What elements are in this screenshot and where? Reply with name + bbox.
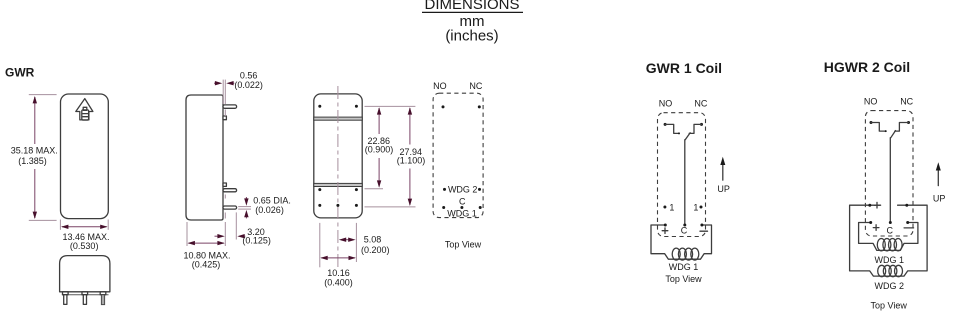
contact NC terminal (HGWR) bbox=[895, 121, 910, 131]
coil WDG1 (HGWR) bbox=[877, 239, 902, 251]
dashed relay outline (GWR schematic) bbox=[658, 113, 706, 237]
extension lines 10.80 bbox=[187, 222, 225, 246]
extension lines 0.65 DIA bbox=[238, 207, 251, 210]
centerline vertical bbox=[337, 86, 339, 268]
end view pin 1 bbox=[63, 292, 69, 305]
dimension arrows 0.56 bbox=[214, 81, 234, 85]
extension line pin right bbox=[355, 223, 357, 262]
common wire (HGWR) bbox=[889, 138, 891, 223]
side view stub upper bbox=[223, 116, 226, 120]
svg-text:DIMENSIONS: DIMENSIONS bbox=[424, 0, 519, 13]
svg-text:WDG 1: WDG 1 bbox=[447, 208, 477, 218]
side view stub lower bbox=[223, 183, 226, 186]
dimension arrows 0.65 bbox=[244, 197, 248, 218]
svg-text:0.56: 0.56 bbox=[240, 70, 258, 80]
svg-text:(0.026): (0.026) bbox=[255, 205, 284, 215]
svg-text:NO: NO bbox=[864, 97, 878, 107]
winding terminal dots (GWR) bbox=[664, 224, 704, 227]
winding box WDG1 inner (HGWR) bbox=[859, 223, 918, 251]
svg-text:(0.900): (0.900) bbox=[365, 145, 394, 155]
end view pin 3 bbox=[100, 292, 106, 305]
side view bottom pin bbox=[223, 206, 237, 209]
extension lines 0.56 twin bbox=[223, 80, 225, 104]
svg-text:UP: UP bbox=[717, 184, 730, 194]
extension lines 13.46 bbox=[59, 220, 61, 230]
dimension text 13.46 MAX (0.530) bbox=[62, 232, 109, 251]
dimension text 5.08 (0.200) bbox=[361, 235, 390, 255]
dimension line 22.86 bbox=[377, 107, 381, 188]
extension line bottom row bbox=[365, 206, 416, 208]
mounting bar upper bbox=[314, 117, 362, 120]
relay bottom view body bbox=[314, 94, 362, 218]
contact NO terminal bbox=[664, 123, 680, 134]
dimension text 0.56 (0.022) bbox=[234, 70, 263, 90]
extension line pin left bbox=[319, 223, 321, 267]
dimension line 35.18 vertical bbox=[33, 96, 37, 219]
winding box WDG1 (GWR) bbox=[651, 225, 712, 259]
end view pin 2 bbox=[82, 292, 88, 305]
dimension text 10.16 (0.400) bbox=[324, 268, 353, 288]
svg-text:5.08: 5.08 bbox=[364, 235, 382, 245]
pin dots top row bbox=[318, 105, 358, 108]
svg-text:1: 1 bbox=[693, 202, 698, 212]
svg-text:NC: NC bbox=[469, 81, 482, 91]
mounting bar lower bbox=[314, 183, 362, 186]
svg-text:(0.400): (0.400) bbox=[324, 277, 353, 287]
end view base strip bbox=[62, 294, 109, 296]
svg-text:C: C bbox=[886, 226, 893, 236]
dimension text 22.86 (0.900) bbox=[365, 136, 394, 154]
plus polarity mark inner (HGWR) bbox=[873, 225, 879, 231]
svg-text:UP: UP bbox=[933, 194, 946, 204]
svg-text:NC: NC bbox=[694, 99, 707, 109]
svg-text:NC: NC bbox=[900, 97, 913, 107]
top view bottom row dots bbox=[442, 206, 482, 209]
svg-text:Top View: Top View bbox=[445, 240, 482, 250]
extension line bottom (35.18) bbox=[29, 219, 57, 221]
svg-text:WDG 1: WDG 1 bbox=[669, 262, 699, 272]
svg-text:1: 1 bbox=[669, 202, 674, 212]
dimension text 10.80 MAX (0.425) bbox=[183, 250, 230, 269]
dimension arrows 3.20 bbox=[215, 234, 246, 238]
svg-text:(0.125): (0.125) bbox=[242, 235, 271, 245]
orientation arrow icon bbox=[76, 99, 93, 121]
dashed outline top view bbox=[433, 93, 483, 217]
pin dots middle row bbox=[318, 188, 358, 191]
coil WDG1 (GWR) bbox=[672, 248, 699, 260]
pin dots bottom row bbox=[318, 204, 358, 207]
contact NC terminal bbox=[689, 123, 703, 133]
svg-text:10.16: 10.16 bbox=[327, 268, 350, 278]
svg-text:(0.022): (0.022) bbox=[234, 80, 263, 90]
armature (HGWR) bbox=[891, 131, 896, 138]
svg-text:(1.100): (1.100) bbox=[397, 156, 426, 166]
dimension line 27.94 bbox=[408, 107, 412, 206]
svg-text:WDG 2: WDG 2 bbox=[875, 281, 905, 291]
pin 1 right marker bbox=[693, 202, 702, 212]
dimension text 27.94 (1.100) bbox=[397, 147, 426, 166]
top view pin dots NO NC bbox=[442, 105, 481, 108]
svg-text:(0.200): (0.200) bbox=[361, 245, 390, 255]
extension line middle row bbox=[365, 188, 384, 190]
extension line top row bbox=[365, 105, 416, 107]
side view middle pin bbox=[223, 189, 237, 192]
armature bbox=[685, 133, 690, 140]
dashed red extension segments below 0.56 bbox=[224, 110, 226, 219]
dimension text 3.20 (0.125) bbox=[242, 227, 271, 245]
svg-text:35.18 MAX.: 35.18 MAX. bbox=[11, 145, 58, 155]
svg-text:NO: NO bbox=[659, 99, 673, 109]
svg-text:(inches): (inches) bbox=[445, 28, 498, 45]
dashed relay outline (HGWR schematic) bbox=[865, 111, 913, 236]
outer winding terminal dots (HGWR) bbox=[868, 204, 908, 207]
svg-text:HGWR 2 Coil: HGWR 2 Coil bbox=[824, 59, 910, 75]
svg-text:GWR: GWR bbox=[5, 66, 35, 80]
dimension line 5.08 bbox=[339, 238, 356, 242]
dimension line 10.80 bbox=[188, 241, 225, 245]
svg-text:C: C bbox=[459, 196, 466, 206]
svg-text:WDG 1: WDG 1 bbox=[875, 255, 905, 265]
dimension line 13.46 bbox=[61, 225, 108, 229]
svg-text:(1.385): (1.385) bbox=[18, 156, 47, 166]
plus polarity mark (GWR) bbox=[662, 228, 668, 234]
plus polarity mark outer (HGWR) bbox=[874, 202, 880, 208]
extension line 3.20 right bbox=[235, 212, 237, 239]
svg-text:Top View: Top View bbox=[871, 301, 908, 311]
svg-text:WDG 2: WDG 2 bbox=[448, 184, 478, 194]
UP arrow (HGWR) bbox=[933, 162, 946, 203]
minus polarity mark (GWR) bbox=[700, 230, 708, 232]
svg-text:(0.530): (0.530) bbox=[70, 241, 99, 251]
svg-text:C: C bbox=[681, 226, 688, 236]
winding box WDG2 outer (HGWR) bbox=[850, 205, 928, 276]
top view WDG2 row dots bbox=[443, 188, 481, 191]
UP arrow (GWR) bbox=[717, 157, 730, 194]
common wire bbox=[684, 140, 686, 225]
svg-text:GWR 1 Coil: GWR 1 Coil bbox=[646, 60, 722, 76]
svg-text:NO: NO bbox=[433, 81, 447, 91]
side view top pin bbox=[223, 105, 237, 108]
relay end view body bbox=[60, 256, 110, 292]
inner winding terminal dots (HGWR) bbox=[869, 221, 909, 224]
coil WDG2 (HGWR) bbox=[878, 265, 903, 276]
relay side view body bbox=[186, 95, 223, 220]
title DIMENSIONS bbox=[422, 0, 523, 45]
relay front view body bbox=[61, 94, 109, 219]
extension line top (35.18) bbox=[29, 94, 57, 96]
dimension text 35.18 MAX (1.385) bbox=[11, 145, 58, 165]
svg-text:0.65 DIA.: 0.65 DIA. bbox=[253, 195, 291, 205]
svg-text:(0.425): (0.425) bbox=[192, 260, 221, 270]
pin 1 left marker bbox=[663, 202, 674, 212]
contact NO terminal (HGWR) bbox=[870, 121, 887, 132]
dimension text 0.65 DIA (0.026) bbox=[253, 195, 291, 215]
svg-text:Top View: Top View bbox=[665, 274, 702, 284]
dimension line 10.16 bbox=[320, 256, 356, 260]
minus polarity mark inner (HGWR) bbox=[904, 227, 914, 229]
